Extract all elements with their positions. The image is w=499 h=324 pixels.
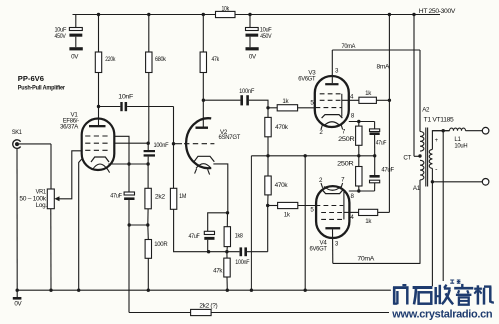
V4 grid dashes [316, 205, 344, 207]
node 47uF bottom [207, 250, 210, 253]
node reservoir cap junction [248, 13, 251, 16]
node ground junction x=305.2 [304, 289, 307, 292]
wire 47k to ground [226, 277, 228, 290]
transformer T1 VT1185 primary [419, 50, 421, 132]
svg-text:www.crystalradio.cn: www.crystalradio.cn [391, 309, 493, 321]
wire 1k to V3 grid [298, 107, 316, 109]
svg-text:SK1: SK1 [12, 129, 23, 136]
svg-text:220k: 220k [105, 56, 116, 63]
resistor 680k [146, 52, 152, 73]
V2 cathode [194, 156, 214, 161]
node ground junction x=51 [49, 289, 52, 292]
wire V4 pin8 cathode out [349, 190, 375, 192]
wire 47k top lead [202, 15, 204, 53]
resistor 10k (HT dropper) [216, 11, 236, 17]
V3 pin ticks 2,7 [321, 124, 323, 129]
wire 680k top lead [148, 15, 150, 53]
svg-text:Log.: Log. [36, 202, 48, 209]
wire NFB row left [129, 312, 191, 314]
capacitor C 10uF 450V (right reservoir) [249, 15, 251, 28]
wire 100R top lead [147, 225, 150, 240]
svg-text:47uF: 47uF [376, 139, 387, 146]
wire V4 grid node down to coupling row [267, 206, 269, 252]
wire rail to ground (right drop) [304, 156, 306, 290]
resistor 250R (V4 cathode) [356, 167, 362, 187]
transformer T1 secondary [432, 131, 449, 150]
wire V2 anode lead [202, 73, 204, 127]
svg-text:T1 VT1185: T1 VT1185 [424, 117, 455, 124]
node V4 grid junction [266, 204, 269, 207]
resistor 47k [200, 52, 206, 73]
svg-text:6V6GT: 6V6GT [310, 246, 328, 253]
wire HT rail right section [235, 14, 440, 16]
wire V3 pin8 cathode out [349, 121, 375, 123]
svg-text:70mA: 70mA [341, 43, 356, 50]
resistor 100R [145, 240, 151, 259]
node V3 grid junction [266, 106, 269, 109]
svg-text:PP-6V6: PP-6V6 [18, 74, 44, 83]
node ground junction x=148.3 [147, 289, 150, 292]
resistor 1k (V3 screen) [359, 97, 377, 103]
wire secondary to ground (visible part) [431, 182, 433, 286]
svg-text:450V: 450V [260, 33, 272, 40]
wire V2 cathode down [213, 164, 227, 213]
wire V4 screen out [344, 211, 359, 213]
V3 internal beam plate link [341, 94, 343, 117]
node 47uF rail junction [373, 154, 376, 157]
wire V1 cathode to 47uF [114, 136, 129, 192]
connector output terminal top [482, 127, 489, 134]
node rail ground tap [304, 154, 307, 157]
capacitor 47uF (V2 cathode) [204, 231, 214, 234]
resistor 470k (V3 grid leak) [265, 117, 271, 136]
wire 250R to rail [358, 156, 360, 167]
svg-text:250R: 250R [338, 136, 355, 143]
wire jack sleeve to ground [16, 148, 18, 290]
wire 100nF to V4 grid riser [247, 251, 268, 253]
capacitor 10nF coupling [99, 106, 121, 108]
capacitor C 10uF 450V (left reservoir) [75, 15, 77, 28]
node 100nF bottom tap [146, 162, 149, 165]
wire 1k to V4 grid [298, 205, 316, 207]
svg-text:A2: A2 [422, 107, 430, 114]
svg-text:47k: 47k [211, 56, 219, 63]
node V2 grid junction [172, 142, 175, 145]
wire V3 anode to primary top [332, 49, 420, 51]
svg-text:HT 250-300V: HT 250-300V [419, 8, 456, 15]
V2 pin ticks [195, 169, 197, 174]
wire jack tip to VR1 [19, 143, 51, 145]
V4 pin ticks 2,7 [321, 183, 323, 188]
wire 250R bottom lead [358, 186, 360, 191]
wire ground bus [17, 289, 391, 291]
node 680k top junction [147, 13, 150, 16]
wire cathode bottom junction row [129, 224, 148, 226]
svg-text:470k: 470k [275, 124, 289, 131]
svg-text:10k: 10k [221, 5, 229, 12]
svg-text:47uF: 47uF [381, 166, 394, 173]
glyph ji [477, 285, 480, 304]
wire screen 1k to HT riser [376, 99, 389, 101]
wire VR1 bottom to ground [50, 209, 52, 291]
connector output terminal bottom [432, 181, 482, 183]
wire 470k to V4 grid node [267, 195, 269, 206]
V2 grid dashes [174, 143, 183, 145]
svg-text:0V: 0V [14, 300, 22, 307]
wire 220k top lead [98, 15, 100, 53]
wire V4 anode down [332, 229, 334, 263]
wire NFB riser [128, 225, 130, 313]
node secondary bottom [431, 180, 434, 183]
wire cathode rail under V1 [108, 163, 148, 165]
svg-text:Push-Pull Amplifier: Push-Pull Amplifier [18, 84, 66, 91]
node V4 cathode junction [357, 189, 360, 192]
capacitor 100nF coupling (upper) [203, 99, 240, 101]
resistor 2k2 (V1 cathode) [145, 188, 151, 209]
wire mid rail left drop to ground [250, 156, 252, 290]
wire V4 grid node to 1k [268, 205, 278, 207]
wire 470k to mid rail [267, 137, 269, 156]
svg-text:250R: 250R [337, 161, 354, 168]
V1 heater arc [93, 164, 108, 170]
ground 0V symbol [16, 290, 18, 297]
V1 pin tick lower right [107, 168, 110, 173]
vacuum tube V2 6SN7GT (half) [186, 118, 211, 168]
svg-text:47k: 47k [213, 268, 223, 275]
node V1 screen junction [147, 142, 150, 145]
V2 anode plate bar [196, 127, 209, 129]
svg-text:10uH: 10uH [454, 142, 467, 149]
transformer core [425, 128, 427, 187]
wire 1k8 bottom lead [226, 247, 228, 252]
resistor 1k (V3 grid stopper) [277, 105, 297, 111]
ground 0V bar (left cap) [69, 47, 82, 50]
svg-text:470k: 470k [275, 182, 289, 189]
node V1 anode / 10nF tap [97, 105, 100, 108]
wire 47uF bottom lead [207, 240, 209, 252]
node 47uF top tap [127, 162, 130, 165]
resistor 1M (V2 grid leak) [170, 188, 176, 209]
node 250R rail junction [357, 154, 360, 157]
resistor 47k lower [224, 258, 230, 277]
wire NFB row right [211, 312, 389, 314]
V1 cathode [91, 157, 109, 162]
node V3 cathode junction [357, 120, 360, 123]
vacuum tube V3 6V6GT [315, 76, 349, 127]
svg-text:100nF: 100nF [235, 259, 249, 266]
wire grid node to 1k [268, 107, 277, 109]
svg-text:70mA: 70mA [357, 256, 375, 263]
resistor 220k [95, 52, 101, 73]
wire 100R to ground [147, 258, 149, 290]
wire 680k to V1 screen node [148, 73, 150, 144]
VR1 wiper arrow [54, 196, 59, 201]
node 220k top junction [97, 13, 100, 16]
wire V2 grid vertical [173, 107, 175, 189]
V4 anode plate bar [325, 227, 340, 229]
node 1k8 bottom [225, 250, 228, 253]
node NFB junction [128, 223, 131, 226]
svg-text:100nF: 100nF [154, 142, 169, 149]
svg-text:6SN7GT: 6SN7GT [219, 134, 241, 141]
inductor L1 10uH [432, 130, 449, 132]
glyph shou [434, 287, 437, 304]
node ground junction x=251.4 [250, 289, 253, 292]
resistor 1k8 [224, 227, 230, 247]
node ground junction x=78.7 [77, 289, 80, 292]
capacitor 47uF (V1 cathode bypass) [124, 192, 134, 195]
wire CT link [414, 155, 420, 157]
wire 10nF to V2 grid drop [127, 106, 173, 108]
V4 internal beam plate link [343, 192, 345, 220]
ground 0V bar (right cap) [246, 47, 259, 50]
wire 470k upper top lead [267, 108, 269, 118]
wire 250R top lead [358, 122, 360, 127]
wire secondary bottom lead [431, 168, 433, 181]
svg-text:A1: A1 [413, 185, 421, 192]
wire mid rail [251, 155, 374, 157]
svg-text:8mA: 8mA [377, 64, 391, 71]
wire 2k2 bottom lead [147, 209, 149, 225]
V4 heater arc [324, 187, 341, 191]
svg-text:1k8: 1k8 [235, 232, 244, 239]
svg-text:450V: 450V [55, 33, 67, 40]
svg-text:47uF: 47uF [110, 193, 122, 200]
svg-text:680k: 680k [155, 56, 167, 63]
wire V4 anode to primary bottom [333, 262, 421, 264]
svg-text:0V: 0V [71, 54, 79, 61]
wire to 47uF (V2 cathode) [208, 213, 228, 232]
wire 1k8 top lead [226, 213, 228, 227]
wire V3 anode to OPT [331, 50, 333, 83]
node V2 anode / 100nF tap [202, 99, 205, 102]
wire V4 screen 1k to riser [378, 211, 390, 213]
V3 cathode [322, 115, 343, 119]
node screen feed junction [388, 13, 391, 16]
wire V3 screen out [342, 99, 359, 101]
svg-text:2k2: 2k2 [155, 194, 166, 201]
svg-text:36/37A: 36/37A [60, 123, 79, 130]
svg-text:100nF: 100nF [239, 88, 254, 95]
svg-text:10nF: 10nF [118, 94, 133, 101]
wire V1 anode lead [98, 73, 100, 127]
wire HT to CT riser [413, 15, 415, 157]
svg-text:47uF: 47uF [189, 233, 200, 240]
wire 2k2 top lead [147, 164, 149, 188]
glyph kuang [393, 287, 396, 305]
svg-text:1M: 1M [179, 193, 186, 200]
node center tap [418, 154, 421, 157]
wire primary bottom lead [419, 180, 421, 264]
V1 anode plate bar [89, 125, 106, 127]
watermark tiny superscript marks [450, 280, 460, 283]
wire wiper to V1 grid [60, 151, 82, 199]
capacitor 47uF (V3 cathode bypass) [374, 122, 376, 129]
wire screen supply riser [388, 15, 390, 213]
svg-text:CT: CT [403, 155, 411, 162]
wire 47uF bottom lead [128, 200, 130, 225]
glyph yin [461, 284, 463, 287]
node 470k junction on rail [266, 154, 269, 157]
resistor 1k (V4 screen) [359, 209, 378, 215]
vacuum tube V4 6V6GT [316, 186, 349, 238]
svg-text:6V6GT: 6V6GT [298, 76, 316, 83]
watermark CJK glyphs (drawn strokes) [393, 284, 494, 305]
capacitor 100nF coupling (lower) [240, 247, 243, 256]
wire V1 screen to node [114, 142, 148, 144]
potentiometer VR1 50-100k log [47, 189, 54, 209]
capacitor 100nF (V1 screen bypass) [147, 143, 149, 150]
node ground junction x=227.3 [226, 289, 229, 292]
svg-text:VR1: VR1 [36, 188, 47, 195]
V4 cathode [322, 190, 343, 194]
node ground junction x=17.2 [16, 289, 19, 292]
V3 grid dashes [320, 93, 342, 95]
V3 heater arc [324, 122, 340, 126]
resistor 2k2 (NFB) [191, 309, 212, 315]
wire VR1 top lead [50, 144, 52, 189]
svg-text:2k2 (?): 2k2 (?) [199, 303, 217, 310]
resistor 47k (NFB shunt) [226, 252, 228, 258]
wire 470k lower top lead [267, 156, 269, 176]
resistor 470k (V4 grid leak) [265, 176, 271, 195]
node NFB takeoff [442, 129, 445, 132]
wire 100nF to V3 grid node [249, 100, 268, 108]
V1 grid dashes [85, 135, 109, 137]
svg-text:0V: 0V [249, 54, 257, 61]
V1 pin tick (g3/ground) [79, 158, 83, 290]
node CT feed junction [412, 13, 415, 16]
resistor 1k (V4 grid stopper) [278, 202, 298, 208]
node 47k top junction [202, 13, 205, 16]
V3 anode plate bar [325, 83, 338, 85]
svg-text:100R: 100R [154, 241, 168, 248]
resistor 250R (V3 cathode) [356, 126, 362, 145]
op-amp: none / vacuum tube V1 EF86 pentode [82, 119, 115, 171]
node screen riser junction [388, 99, 391, 102]
node 100R junction [146, 223, 149, 226]
glyph shi [413, 286, 433, 289]
wire coupling row (lower) [174, 209, 240, 251]
wire 250R to rail [358, 145, 360, 156]
V2 heater arc [196, 164, 211, 169]
wire NFB drop (visible part) [442, 131, 444, 281]
wire HT rail left section [73, 14, 216, 16]
node V2 cathode bias junction [226, 211, 229, 214]
capacitor 47uF (V4 cathode bypass) [374, 156, 376, 175]
